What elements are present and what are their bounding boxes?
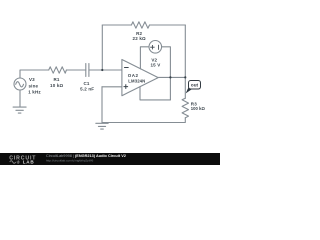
wire plus input to ground vertical — [101, 87, 103, 123]
wire feedback top right segment — [150, 24, 186, 26]
voltage source V2 circle — [149, 41, 162, 54]
wire V3 bottom stub — [19, 90, 21, 107]
V2 minus bar symbol — [158, 45, 160, 50]
wire V2 minus lead down right — [162, 47, 171, 100]
op-amp OA2 triangle — [122, 60, 158, 96]
resistor R3 — [182, 98, 188, 118]
ground below plus input — [96, 122, 108, 124]
wire R1 to C1 — [66, 69, 85, 71]
voltage source V3 circle — [14, 78, 26, 90]
out flag tail — [186, 87, 192, 94]
out flag bubble — [189, 81, 201, 90]
svg-text:1 kHz: 1 kHz — [28, 89, 41, 94]
wire node A to op-amp minus input — [102, 69, 122, 71]
footer logo ground glyph — [17, 160, 20, 163]
svg-text:sine: sine — [29, 83, 39, 88]
svg-text:LAB: LAB — [23, 160, 35, 165]
resistor R1 — [49, 67, 67, 73]
svg-text:100 kΩ: 100 kΩ — [191, 106, 206, 111]
svg-text:10 kΩ: 10 kΩ — [50, 83, 63, 88]
svg-text:http://circuitlab.com/c/mgkkhp: http://circuitlab.com/c/mgkkhp2pW6 — [46, 158, 94, 162]
svg-text:out: out — [191, 83, 199, 88]
junction output node dot — [184, 76, 186, 78]
V3 sine symbol — [16, 82, 24, 87]
wire output node down to R3 — [184, 77, 186, 98]
svg-text:R1: R1 — [53, 77, 59, 82]
wire V2 plus lead to V+ stub — [140, 47, 149, 69]
V2 plus symbol — [150, 45, 154, 49]
junction output/V2 crossing dot — [169, 76, 171, 78]
ground below V3 — [13, 106, 26, 108]
wire R3 bottom to bottom rail — [102, 118, 185, 123]
svg-text:C1: C1 — [83, 81, 89, 86]
svg-text:LM324N: LM324N — [128, 79, 145, 84]
junction node A dot — [101, 69, 103, 71]
resistor R2 — [131, 22, 149, 28]
op-amp minus symbol — [124, 67, 129, 69]
wire plus input — [102, 86, 122, 88]
footer bar — [0, 153, 220, 165]
svg-text:5.2 nF: 5.2 nF — [80, 87, 94, 92]
svg-text:OA2: OA2 — [128, 73, 139, 78]
wire C1 to node A — [89, 69, 102, 71]
wire V3 top to R1 — [20, 70, 49, 78]
svg-text:15 V: 15 V — [151, 62, 161, 67]
svg-text:V3: V3 — [29, 77, 35, 82]
op-amp plus symbol — [124, 84, 129, 89]
svg-text:R2: R2 — [136, 31, 142, 36]
wire feedback right vertical down to output node — [184, 25, 186, 77]
footer logo sine squiggle — [10, 161, 16, 164]
wire feedback top left segment — [102, 24, 131, 26]
svg-text:22 kΩ: 22 kΩ — [133, 36, 146, 41]
wire op-amp output — [158, 76, 185, 78]
capacitor C1 — [85, 64, 87, 77]
wire V- return to op-amp V- stub — [140, 87, 170, 100]
wire feedback left vertical — [101, 25, 103, 70]
